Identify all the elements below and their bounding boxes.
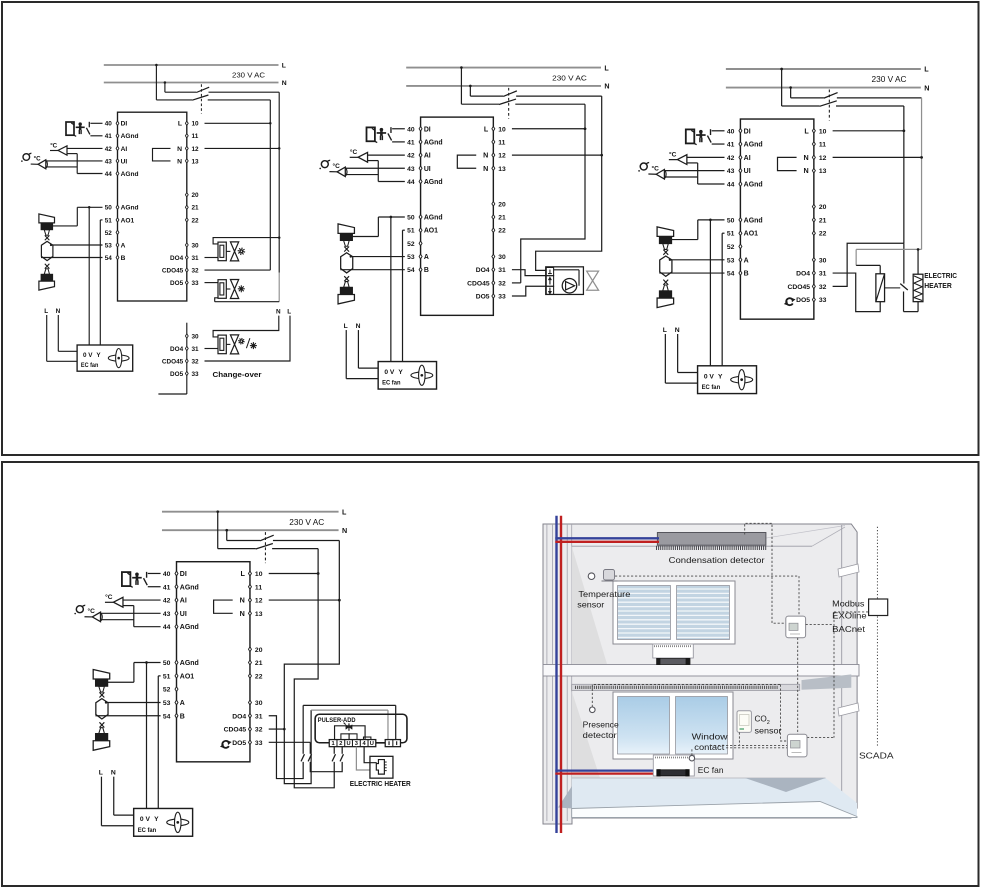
svg-text:sensor: sensor bbox=[755, 727, 782, 736]
PULSER-ADD module bbox=[315, 714, 407, 743]
svg-text:11: 11 bbox=[498, 139, 505, 146]
svg-text:230 V AC: 230 V AC bbox=[232, 70, 266, 79]
gray loop to terminal I1 bbox=[311, 709, 388, 711]
svg-text:54: 54 bbox=[163, 713, 171, 720]
wire L in 10 bbox=[833, 130, 904, 132]
3-point actuator module bbox=[546, 267, 584, 295]
svg-text:52: 52 bbox=[163, 687, 171, 694]
svg-text:DO5: DO5 bbox=[170, 371, 184, 378]
svg-text:30: 30 bbox=[192, 242, 200, 249]
valve hexagon body bbox=[96, 699, 108, 719]
svg-text:42: 42 bbox=[105, 146, 113, 153]
svg-text:AGnd: AGnd bbox=[121, 171, 139, 178]
right wall column bbox=[841, 525, 843, 800]
svg-text:41: 41 bbox=[727, 142, 735, 149]
svg-text:32: 32 bbox=[819, 284, 827, 291]
wire 0V to fan bbox=[709, 220, 711, 366]
lower EC fan unit bbox=[653, 755, 694, 776]
diagram 2: controller with 3-point valve actuator bbox=[319, 64, 609, 389]
svg-text:53: 53 bbox=[163, 700, 171, 707]
svg-text:UI: UI bbox=[121, 158, 128, 165]
svg-text:0 V: 0 V bbox=[140, 816, 151, 823]
svg-text:CDO45: CDO45 bbox=[162, 358, 184, 365]
wire terminal 3 to heater bbox=[356, 747, 370, 770]
svg-text:AO1: AO1 bbox=[744, 231, 758, 238]
wire AO1 51 to fan Y bbox=[100, 219, 102, 221]
sensor AGnd link bbox=[368, 160, 379, 162]
N rail to module bbox=[536, 96, 602, 270]
svg-text:33: 33 bbox=[819, 297, 827, 304]
controller pins left bbox=[175, 571, 178, 576]
svg-text:Y: Y bbox=[96, 352, 101, 359]
svg-text:31: 31 bbox=[498, 267, 506, 274]
left wall lines bbox=[546, 524, 548, 821]
svg-text:12: 12 bbox=[255, 598, 263, 605]
svg-text:2: 2 bbox=[767, 720, 770, 726]
svg-text:°C: °C bbox=[669, 150, 677, 158]
svg-text:12: 12 bbox=[498, 153, 506, 160]
svg-text:EC fan: EC fan bbox=[138, 827, 157, 834]
controller box bbox=[421, 117, 494, 315]
CO2 sensor device bbox=[737, 711, 751, 733]
contact blade t4 bbox=[340, 754, 343, 761]
svg-text:°C: °C bbox=[350, 148, 358, 156]
svg-text:EXOline: EXOline bbox=[832, 612, 867, 621]
svg-text:40: 40 bbox=[407, 126, 415, 133]
contact blade t3 bbox=[308, 754, 311, 761]
wire CO2 to bus bbox=[738, 732, 740, 745]
svg-text:32: 32 bbox=[255, 727, 263, 734]
svg-text:Condensation detector: Condensation detector bbox=[669, 556, 765, 565]
svg-text:51: 51 bbox=[407, 228, 415, 235]
svg-text:CDO45: CDO45 bbox=[224, 727, 247, 734]
valve neck top bbox=[344, 240, 350, 246]
svg-text:L: L bbox=[44, 308, 48, 315]
svg-text:AGnd: AGnd bbox=[121, 133, 139, 140]
svg-text:33: 33 bbox=[192, 371, 200, 378]
svg-text:30: 30 bbox=[498, 254, 506, 261]
right wall notch upper bbox=[838, 564, 859, 577]
supply pipes to ceiling unit bbox=[555, 537, 659, 539]
svg-text:3: 3 bbox=[355, 741, 358, 747]
svg-text:13: 13 bbox=[498, 166, 506, 173]
svg-text:50: 50 bbox=[105, 205, 113, 212]
diagram 3: controller with electric heater relay bbox=[638, 65, 957, 394]
svg-text:22: 22 bbox=[819, 231, 827, 238]
svg-text:Modbus: Modbus bbox=[832, 600, 864, 609]
svg-text:40: 40 bbox=[727, 128, 735, 135]
valve neck bottom bbox=[44, 269, 49, 275]
wire DO5 33 bbox=[512, 286, 546, 296]
valve actuator body bbox=[218, 280, 226, 299]
wire AGnd 50 to actuator bbox=[698, 219, 725, 221]
controller pins left bbox=[739, 128, 742, 133]
svg-text:sensor: sensor bbox=[577, 601, 604, 610]
contact lower bbox=[903, 291, 905, 311]
lower floor bbox=[572, 778, 857, 818]
svg-text:13: 13 bbox=[192, 158, 200, 165]
svg-text:52: 52 bbox=[407, 241, 415, 248]
svg-text:DO5: DO5 bbox=[476, 294, 490, 301]
diagram1: 230 V AC supply lines bbox=[104, 64, 279, 66]
svg-text:N: N bbox=[604, 83, 609, 91]
valve X top bbox=[663, 250, 668, 255]
svg-text:50: 50 bbox=[163, 660, 171, 667]
roof perspective lines bbox=[572, 545, 812, 547]
svg-text:L: L bbox=[804, 126, 809, 135]
EC fan propeller bbox=[167, 819, 189, 826]
svg-text:PULSER-ADD: PULSER-ADD bbox=[318, 717, 356, 724]
triac symbol bbox=[346, 725, 349, 730]
wire CDO45 32 bbox=[269, 728, 285, 730]
wire DO4 change-over bbox=[205, 348, 219, 350]
coil contact link bbox=[885, 287, 901, 289]
svg-text:51: 51 bbox=[105, 217, 113, 224]
occupancy door symbol bbox=[66, 122, 74, 135]
valve actuator bottom block bbox=[96, 734, 108, 741]
svg-text:10: 10 bbox=[498, 126, 506, 133]
svg-text:°C: °C bbox=[88, 607, 96, 615]
wire 0V to fan bbox=[88, 207, 90, 345]
svg-text:21: 21 bbox=[192, 205, 200, 212]
outdoor sensor symbol bbox=[321, 161, 328, 168]
floor front band bbox=[572, 802, 857, 818]
controller box bbox=[177, 562, 250, 762]
svg-text:0 V: 0 V bbox=[83, 352, 93, 359]
wire N in 12 bbox=[205, 147, 280, 149]
svg-text:30: 30 bbox=[255, 700, 263, 707]
svg-text:DO4: DO4 bbox=[796, 271, 810, 278]
svg-text:22: 22 bbox=[192, 217, 200, 224]
wire AGnd 44 bbox=[378, 180, 405, 182]
supply pipes vertical bbox=[555, 516, 557, 833]
svg-text:N: N bbox=[177, 146, 182, 153]
occupancy person symbol bbox=[699, 130, 703, 134]
wire terminal 4 to heater bbox=[364, 747, 377, 763]
valve X bottom bbox=[45, 264, 50, 269]
tab above terminal 4 bbox=[363, 737, 370, 740]
occupancy person symbol bbox=[79, 122, 82, 125]
svg-text:31: 31 bbox=[819, 271, 827, 278]
svg-text:N: N bbox=[804, 153, 809, 162]
svg-text:22: 22 bbox=[498, 228, 506, 235]
internal N jumper 12-13 bbox=[777, 157, 796, 170]
svg-text:0 V: 0 V bbox=[704, 374, 715, 381]
wire DO5 33 bbox=[205, 282, 219, 284]
occupancy person symbol bbox=[380, 128, 384, 132]
aux terminal block bbox=[385, 740, 400, 747]
outdoor temperature sensor bbox=[648, 173, 656, 175]
inner boxes bbox=[341, 734, 349, 740]
bus wires bbox=[834, 611, 869, 613]
strip to aux link bbox=[376, 742, 385, 744]
occupancy person symbol bbox=[135, 573, 139, 577]
pulser terminal strip bbox=[329, 740, 376, 747]
heating sun symbol bbox=[243, 340, 245, 342]
module T symbol bbox=[548, 273, 552, 275]
wire AGnd 41 bbox=[712, 143, 725, 145]
wire N return DO5 bbox=[215, 298, 218, 302]
wire B 54 bbox=[95, 715, 160, 717]
svg-text:AGnd: AGnd bbox=[180, 624, 199, 631]
electric heater box bbox=[370, 756, 393, 778]
svg-text:11: 11 bbox=[819, 142, 826, 149]
valve neck top bbox=[99, 686, 105, 692]
change-over terminal strip edge bbox=[186, 323, 188, 394]
svg-text:UI: UI bbox=[180, 611, 187, 618]
svg-text:52: 52 bbox=[105, 230, 113, 237]
wire AI 42 bbox=[687, 156, 725, 158]
wire N in 12 bbox=[512, 154, 602, 156]
valve neck top bbox=[44, 230, 49, 236]
wire presence to controller bbox=[592, 685, 780, 708]
svg-text:50: 50 bbox=[727, 217, 735, 224]
diagram3: 230 V AC supply lines bbox=[726, 68, 921, 70]
svg-text:AO1: AO1 bbox=[424, 228, 438, 235]
svg-text:EC fan: EC fan bbox=[382, 380, 400, 387]
valve actuator top block bbox=[96, 679, 108, 686]
svg-text:AI: AI bbox=[424, 153, 431, 160]
valve actuator body bbox=[218, 335, 226, 354]
svg-text:43: 43 bbox=[407, 166, 415, 173]
controller pins left bbox=[116, 121, 119, 125]
svg-text:41: 41 bbox=[163, 584, 171, 591]
diagram 4: controller with PULSER-ADD electric heater bbox=[74, 507, 411, 836]
N rail bbox=[278, 92, 280, 272]
valve 2-way body bbox=[226, 250, 230, 252]
EC fan box bbox=[134, 808, 193, 836]
svg-text:N: N bbox=[342, 526, 347, 535]
svg-text:10: 10 bbox=[255, 571, 263, 578]
svg-text:L: L bbox=[287, 309, 291, 316]
svg-text:51: 51 bbox=[727, 231, 735, 238]
wire L in 10 bbox=[205, 122, 271, 124]
wire CDO45 32 bbox=[512, 282, 521, 284]
svg-text:L: L bbox=[282, 63, 286, 70]
wire A 53 bbox=[351, 256, 405, 258]
svg-text:N: N bbox=[276, 309, 281, 316]
wire AGnd 41 bbox=[392, 141, 405, 143]
wire A 53 bbox=[51, 244, 103, 246]
ceiling fan-coil unit bbox=[657, 533, 766, 546]
valve X bottom bbox=[663, 280, 668, 285]
wire to relay coil top bbox=[856, 264, 880, 266]
svg-text:L: L bbox=[604, 64, 609, 72]
valve actuator top block bbox=[659, 237, 671, 244]
gateway box bbox=[869, 599, 888, 616]
svg-text:N: N bbox=[111, 769, 116, 776]
heater element glyph bbox=[376, 760, 384, 775]
temperature sensor device bbox=[604, 570, 615, 581]
svg-text:33: 33 bbox=[255, 740, 263, 747]
heating sun symbol bbox=[243, 251, 245, 253]
svg-text:EC fan: EC fan bbox=[698, 766, 724, 775]
svg-text:B: B bbox=[744, 271, 749, 278]
lower left corner shadow bbox=[572, 691, 600, 778]
svg-text:43: 43 bbox=[727, 168, 735, 175]
valve actuator bottom flag bbox=[93, 741, 110, 751]
mains isolator switch bbox=[217, 512, 219, 549]
wire AI 42 bbox=[368, 154, 405, 156]
svg-text:N: N bbox=[56, 308, 61, 315]
cooling snowflake symbol bbox=[253, 345, 257, 347]
occupancy door symbol bbox=[122, 572, 130, 586]
svg-text:53: 53 bbox=[105, 242, 113, 249]
svg-text:30: 30 bbox=[192, 333, 200, 340]
svg-text:40: 40 bbox=[105, 121, 113, 128]
wire AGnd 44 bbox=[134, 626, 161, 628]
window contact wires bbox=[710, 744, 787, 746]
controller pins right bbox=[812, 128, 815, 133]
controller pins right bbox=[248, 571, 251, 576]
wire condensation to controller bbox=[745, 523, 786, 623]
svg-text:N: N bbox=[356, 323, 361, 330]
svg-text:B: B bbox=[121, 255, 126, 262]
outdoor temperature sensor bbox=[329, 171, 337, 173]
wire AGnd 50 to actuator bbox=[378, 216, 404, 218]
valve actuator bottom flag bbox=[39, 281, 55, 290]
building shell bbox=[543, 524, 857, 824]
supply pipes to lower fan bbox=[555, 769, 657, 771]
svg-text:12: 12 bbox=[819, 155, 827, 162]
svg-text:CDO45: CDO45 bbox=[467, 280, 490, 287]
window contact sensor bbox=[689, 756, 694, 761]
svg-text:CO: CO bbox=[755, 715, 767, 724]
svg-text:L: L bbox=[342, 507, 347, 516]
svg-text:HEATER: HEATER bbox=[924, 283, 952, 290]
svg-text:AO1: AO1 bbox=[180, 673, 194, 680]
svg-text:Window: Window bbox=[692, 733, 728, 742]
svg-text:10: 10 bbox=[819, 128, 827, 135]
svg-text:N: N bbox=[240, 609, 245, 618]
presence detector bbox=[590, 707, 596, 713]
contact blade t1 bbox=[332, 754, 335, 761]
presence contact blade bbox=[86, 128, 90, 135]
svg-text:N: N bbox=[177, 158, 182, 165]
svg-text:11: 11 bbox=[192, 133, 199, 140]
svg-text:CDO45: CDO45 bbox=[162, 268, 184, 275]
svg-text:°C: °C bbox=[332, 162, 340, 170]
svg-text:31: 31 bbox=[255, 713, 263, 720]
triac enclosure bbox=[335, 726, 366, 740]
internal N jumper 12-13 bbox=[214, 600, 233, 613]
svg-text:N: N bbox=[804, 166, 809, 175]
svg-text:AI: AI bbox=[744, 155, 751, 162]
panel 2 border bbox=[2, 462, 979, 886]
module up arrow bbox=[549, 279, 551, 284]
svg-text:AGnd: AGnd bbox=[424, 139, 443, 146]
controller box bbox=[740, 119, 813, 319]
svg-text:20: 20 bbox=[255, 647, 263, 654]
svg-text:DI: DI bbox=[180, 571, 187, 578]
electric heater element bbox=[913, 274, 923, 301]
valve X top bbox=[344, 246, 349, 251]
wire A 53 bbox=[106, 701, 161, 703]
svg-text:43: 43 bbox=[163, 611, 171, 618]
valve hexagon body bbox=[660, 256, 672, 276]
wire DO4 31 bbox=[512, 270, 546, 276]
svg-text:42: 42 bbox=[727, 155, 735, 162]
wire L in 10 bbox=[512, 128, 585, 130]
wire UI 43 bbox=[345, 167, 405, 169]
lower room controller bbox=[787, 734, 807, 757]
valve actuator top flag bbox=[338, 224, 354, 233]
outdoor sensor AGnd link bbox=[46, 166, 77, 168]
svg-text:50: 50 bbox=[407, 214, 415, 221]
svg-text:N: N bbox=[675, 327, 680, 334]
internal N jumper 12-13 bbox=[457, 155, 476, 168]
L rail to module bbox=[521, 104, 585, 283]
outdoor sensor AGnd link bbox=[345, 174, 378, 176]
sensor AGnd link bbox=[67, 153, 77, 155]
svg-text:20: 20 bbox=[819, 204, 827, 211]
inter-floor slab bbox=[543, 665, 859, 677]
valve actuator top flag bbox=[93, 670, 110, 680]
svg-text:ELECTRIC: ELECTRIC bbox=[924, 273, 957, 280]
wire B 54 bbox=[659, 272, 724, 274]
rotation icon bbox=[786, 298, 793, 305]
valve neck bottom bbox=[344, 282, 350, 288]
wire A 53 bbox=[670, 259, 725, 261]
wire B 54 bbox=[340, 269, 405, 271]
svg-text:A: A bbox=[121, 242, 126, 249]
svg-text:L: L bbox=[178, 121, 182, 128]
valve 2-way body bbox=[226, 288, 230, 290]
SCADA trunk dotted bbox=[876, 527, 878, 747]
svg-text:230 V AC: 230 V AC bbox=[552, 74, 587, 83]
svg-text:12: 12 bbox=[192, 146, 200, 153]
floor corner shadow left bbox=[558, 786, 572, 809]
svg-text:L: L bbox=[99, 769, 103, 776]
black loop to terminal I2 bbox=[303, 704, 396, 706]
svg-text:A: A bbox=[180, 700, 185, 707]
svg-text:21: 21 bbox=[819, 217, 827, 224]
wire DO4 31 to coil bbox=[833, 273, 881, 312]
EC fan propeller bbox=[108, 355, 129, 361]
svg-text:BACnet: BACnet bbox=[832, 625, 866, 634]
svg-text:22: 22 bbox=[255, 673, 263, 680]
wire UI 43 bbox=[46, 160, 103, 162]
svg-text:31: 31 bbox=[192, 255, 200, 262]
svg-text:AGnd: AGnd bbox=[424, 179, 443, 186]
svg-text:EC fan: EC fan bbox=[81, 362, 99, 369]
svg-text:42: 42 bbox=[407, 153, 415, 160]
svg-text:41: 41 bbox=[105, 133, 113, 140]
outdoor sensor symbol bbox=[640, 163, 647, 170]
svg-text:10: 10 bbox=[192, 121, 200, 128]
valve X top bbox=[45, 235, 50, 240]
svg-text:B: B bbox=[180, 713, 185, 720]
svg-text:Y: Y bbox=[398, 369, 403, 376]
svg-text:AI: AI bbox=[121, 146, 128, 153]
valve actuator top block bbox=[41, 223, 53, 230]
svg-text:44: 44 bbox=[163, 624, 171, 631]
presence contact blade bbox=[144, 578, 148, 585]
controller box bbox=[118, 112, 187, 301]
svg-text:B: B bbox=[424, 267, 429, 274]
svg-text:0 V: 0 V bbox=[384, 369, 395, 376]
svg-text:DO5: DO5 bbox=[232, 740, 246, 747]
svg-text:Presence: Presence bbox=[583, 721, 619, 730]
svg-text:N: N bbox=[240, 596, 245, 605]
wire AGnd 41 bbox=[90, 135, 102, 137]
contact blade t2 bbox=[301, 754, 304, 761]
wire 0V to fan bbox=[146, 663, 148, 809]
wire DI 40 bbox=[392, 128, 405, 130]
outdoor sensor symbol bbox=[23, 154, 30, 161]
valve 2-way body bbox=[226, 343, 230, 345]
wire UI 43 bbox=[100, 612, 160, 614]
